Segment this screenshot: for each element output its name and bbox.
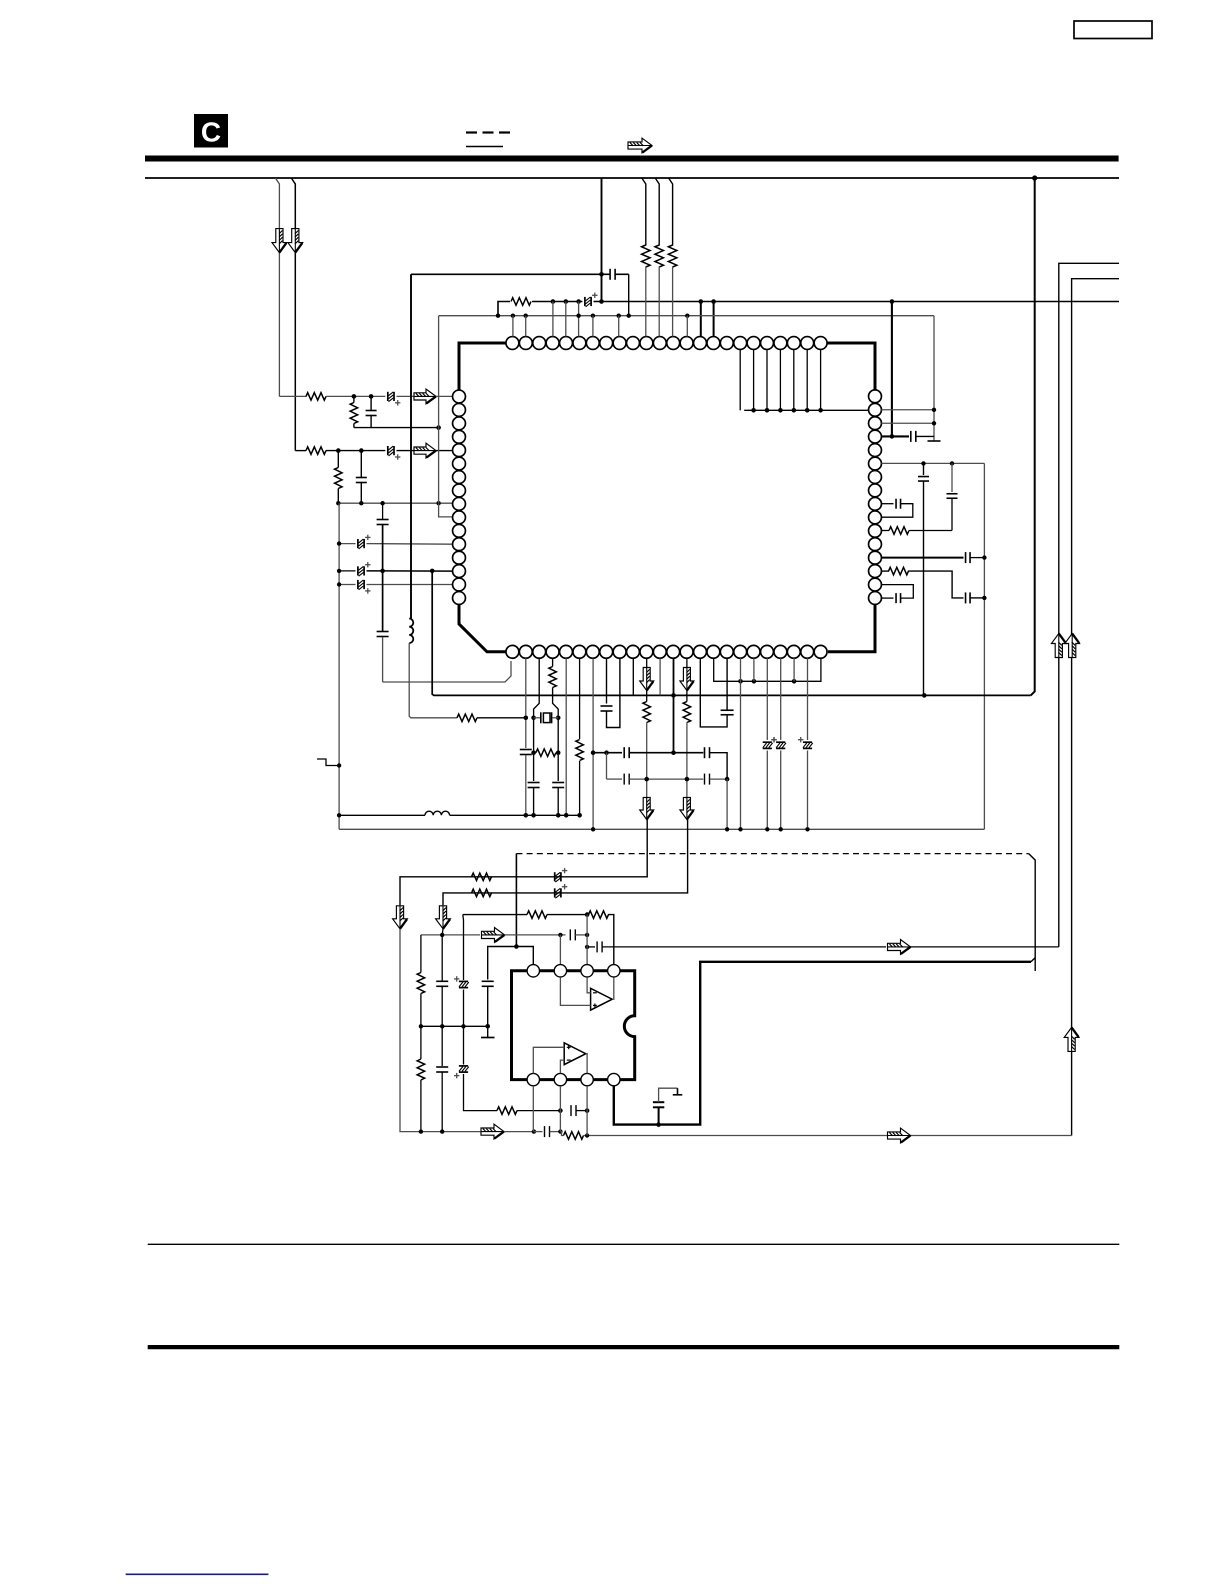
wire row to pin L9 — [338, 502, 452, 504]
arrow down on wire 2 — [288, 229, 303, 253]
filter row2 y779 with two caps — [606, 753, 608, 779]
wire to arrow — [397, 395, 415, 397]
long gray vertical x984 — [983, 463, 985, 829]
electrolytic stub pin B23 — [807, 658, 809, 740]
jog and resistor to long return wire — [560, 1132, 563, 1136]
electrolytic stub pin B20 — [766, 658, 768, 740]
IC2 op-amp IC outline — [512, 971, 635, 1080]
three bias resistor wires from top bus — [642, 178, 646, 246]
branch to cap x487 and ground bar — [488, 947, 517, 980]
pin B6 wire with resistor to ground bus — [579, 658, 581, 739]
pin R14 resistor row with cap — [881, 570, 889, 572]
pin B2 wire to crystal drive node — [525, 658, 527, 748]
pin B4 wire with resistor to crystal right leg — [552, 658, 554, 666]
dashed wire y853 — [516, 853, 1028, 855]
down arrow x443 — [436, 906, 451, 929]
electrolytic C-L1 — [387, 392, 389, 401]
pin R4 row with capacitor — [881, 435, 909, 437]
black pin bus y301 over IC1 — [498, 302, 510, 316]
pin T2 wire — [559, 935, 561, 965]
internal bus from top pins to pin R2 — [739, 350, 741, 411]
op-amp U2A — [591, 988, 613, 1010]
electrolytic C-L5 — [387, 446, 389, 455]
ground bus y815 with inductor — [339, 814, 425, 816]
arrow into pin L5 — [414, 443, 436, 458]
pin B11 wire with down arrow and IF resistor — [646, 658, 648, 701]
decoupling cap near IC2 output — [658, 1107, 660, 1124]
vertical x952 with cap to resistor R11 row — [951, 463, 953, 492]
cap loop pins B15-B17 — [700, 658, 727, 727]
AF row y892 with resistor and electrolytic — [443, 820, 688, 906]
terminator bar x934 — [928, 440, 941, 442]
crystal X1 — [534, 717, 540, 719]
heavy vertical x411 to inductor — [410, 274, 412, 618]
footer heavy rule — [148, 1345, 1120, 1349]
parallel resistor under crystal — [534, 752, 536, 754]
long vertical from gray pin bus x438 — [438, 316, 440, 504]
branch to pin T1 — [516, 947, 533, 965]
stubs from y315 bus to top pins — [512, 316, 514, 337]
main bottom bus y695 — [432, 571, 1030, 696]
capacitor of L5 RC network — [360, 451, 362, 478]
resistor row y1110 into IC2 — [497, 1107, 517, 1115]
AF row y876 with resistor and electrolytic — [400, 820, 647, 906]
vertical from dashed x516 to node — [515, 854, 517, 947]
U2B input wires — [533, 1047, 564, 1073]
vertical x421 with two resistors — [420, 935, 422, 973]
electrolytic in y301 bus — [584, 297, 586, 306]
IC2 top pins — [527, 965, 539, 977]
pin B12 stub — [659, 658, 661, 695]
connector box top right — [1074, 21, 1152, 39]
down arrow x400 — [393, 906, 408, 929]
IC2 pin B3 wire down — [586, 1086, 588, 1136]
wire row to pin L1 — [279, 395, 306, 397]
corner down to gray pin bus — [628, 274, 630, 315]
left vertical wire x339 — [338, 503, 340, 829]
IC1 top pin row — [506, 337, 519, 350]
pin R6 gray bus — [881, 462, 984, 464]
vertical x442 with two caps — [441, 929, 444, 981]
U2B output to pin B3 — [586, 1054, 587, 1074]
IC2 pin B1 wire down — [532, 1086, 534, 1132]
capacitor beside it — [370, 396, 372, 410]
wire row to pin L5 — [295, 450, 306, 452]
bottom AF bus y1131 with arrow — [421, 1131, 481, 1133]
cap loop pins R9/R10 — [881, 503, 893, 505]
footer link underline — [126, 1573, 269, 1575]
pin T3 wire — [586, 915, 588, 965]
pin R3 wire — [881, 422, 934, 424]
up arrow pair mid right — [1051, 634, 1066, 658]
gray row y935 with arrow and cap — [421, 934, 480, 936]
pin B10 stub — [632, 658, 634, 695]
cap line y274 from x411 — [411, 273, 602, 275]
row with electrolytic to pin L15 — [339, 584, 355, 586]
gray ground bus y829 — [339, 828, 984, 830]
wire — [326, 395, 385, 397]
pin B14 wire with down arrow and IF resistor — [686, 658, 688, 701]
signal vertical x1059 — [1059, 263, 1119, 947]
resistor to node row (vertical) — [353, 396, 355, 402]
wire drop 1 from top bus — [275, 178, 279, 396]
pin B5 wire to ground bus — [565, 658, 567, 815]
inductor L (vertical) — [409, 619, 413, 644]
pin B7 wire to buses — [592, 658, 594, 829]
corner from dashed to vertical x1035 — [1029, 854, 1036, 971]
electrolytic stub pin B21 — [780, 658, 782, 740]
pin B22 stub to y681 bus — [793, 658, 795, 681]
row C y947 with cap and arrow to x1059 — [585, 945, 589, 949]
IC1 left pin column — [453, 390, 466, 403]
row with electrolytic to pin L14 (black) — [339, 570, 355, 572]
loop wire y961 from op-amp area — [614, 962, 1031, 1125]
gray bus corner down at x934 — [933, 316, 935, 441]
IF down arrow x687 — [680, 798, 694, 820]
solid net label underline — [466, 146, 503, 148]
arrow on return wire — [888, 1128, 911, 1143]
arrow (signal to right, header) — [628, 138, 652, 153]
cap loop pins B8-B9 — [606, 658, 608, 703]
heavy vertical x892 — [891, 302, 893, 437]
wire into pin L1 — [436, 395, 453, 397]
row with electrolytic to pin L12 — [339, 543, 355, 545]
top thin bus wire — [145, 177, 1119, 179]
pin B13 wire to filter row — [673, 658, 675, 753]
U2A output to pin T4 — [612, 977, 614, 999]
stubs from y301 bus to top pins — [552, 302, 554, 337]
pin R13 row with cap to x984 — [881, 557, 963, 559]
U2A input wires — [587, 977, 591, 993]
ground stub on left bus — [337, 763, 341, 767]
heavy vertical x1035 from top bus — [1032, 175, 1037, 180]
mid bus y1026 — [421, 1025, 488, 1027]
gray pin bus y315 over IC1 — [439, 315, 934, 317]
wire drop 2 from top bus — [291, 178, 295, 451]
vertical x400 to bottom AF bus — [400, 929, 421, 1132]
IC1 bottom pin row — [506, 645, 519, 658]
vertical x463 with two electrolytics — [462, 915, 465, 980]
IC2 bottom pins — [527, 1073, 539, 1085]
wire to pin B1 of main IC — [383, 661, 511, 682]
top heavy bus rail — [145, 156, 1119, 162]
vertical wire x382 with caps — [382, 503, 384, 519]
IC1 right pin column — [869, 390, 882, 403]
vertical x923 with cap — [923, 463, 925, 475]
IF down arrow x647 — [640, 798, 654, 820]
up arrow lower right — [1064, 1027, 1079, 1051]
feedback row y914 with two resistors — [463, 914, 527, 916]
cap in bottom AF row — [534, 1131, 543, 1133]
section label C (black box) — [194, 114, 228, 148]
pin B19 stub to y681 bus — [753, 658, 755, 681]
bottom wire of L1 RC network — [354, 427, 439, 429]
arrow down on wire 1 — [272, 229, 287, 253]
wire from inductor to crystal row — [409, 643, 457, 718]
branch to pin L10 — [439, 503, 453, 517]
resistor R-L5 — [306, 447, 326, 455]
IC1 main IC body outline — [459, 343, 512, 390]
filter row1 y752 with two caps — [593, 752, 622, 754]
vertical feed x601 from top bus — [601, 178, 603, 302]
footer thin rule — [148, 1243, 1120, 1245]
signal vertical x1071 — [1072, 279, 1119, 1136]
capacitor on y274 — [602, 273, 610, 275]
pin R11 resistor — [881, 530, 889, 532]
resistor R-L1 — [306, 393, 326, 401]
arrow into pin L1 — [414, 389, 436, 404]
resistor of L5 RC network — [337, 451, 339, 468]
cap loop pins R15/R16 — [881, 585, 913, 599]
op-amp U2B — [564, 1043, 586, 1065]
IC2 pin B2 wire down — [559, 1086, 561, 1132]
pin B18 wire to ground bus — [740, 658, 742, 829]
dashed net label marks — [466, 131, 477, 133]
pin B3 wire to crystal left leg — [534, 658, 540, 781]
bus y681 linking pins B16-B24 — [714, 658, 821, 681]
svg-text:C: C — [201, 117, 221, 148]
pin R2 wire — [881, 409, 934, 411]
crystal drive resistor — [457, 714, 477, 722]
